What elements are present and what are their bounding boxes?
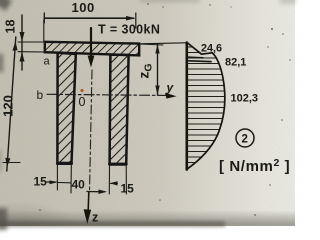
flange (hatched) — [45, 42, 139, 56]
dimension zG — [140, 44, 164, 95]
bottom extension lines — [57, 165, 126, 194]
stray scan specks — [39, 3, 291, 216]
dimension 15 (right web) — [110, 181, 118, 185]
circled 2 — [236, 129, 254, 147]
left web (hatched) — [57, 53, 75, 164]
scan smudge left edge upper — [0, 54, 3, 72]
dimension 100 (top) — [44, 13, 136, 42]
stress curve outline — [187, 43, 225, 170]
right web (hatched) — [110, 55, 129, 165]
dimension 18 (flange thickness, left) — [18, 15, 45, 70]
stress hatching (horizontal lines) — [187, 47, 226, 163]
scan smudge top-left corner — [0, 0, 12, 11]
z axis arrow — [84, 192, 92, 224]
scan smudge top edge mid — [140, 0, 200, 2]
leader arrow for 24,6 — [189, 57, 212, 61]
center line z (dash-dot vertical) — [90, 70, 93, 192]
stress diagram axis — [186, 43, 189, 170]
scan smudge left edge lower — [0, 150, 1, 172]
neutral axis y (dash-dot) — [47, 94, 172, 95]
force arrow T — [88, 28, 95, 68]
flange-top extension to diagram — [140, 43, 187, 44]
dimension 120 (left) — [3, 37, 20, 171]
scan smudge bottom band — [0, 221, 225, 227]
dimension 15 (left web) — [47, 180, 71, 184]
y axis arrow — [165, 93, 177, 99]
red centroid dot — [80, 89, 83, 92]
dimension 40 (gap) — [87, 190, 107, 195]
scan smudge top-right corner — [280, 0, 296, 4]
scan smudge bottom-left corner — [0, 208, 7, 230]
